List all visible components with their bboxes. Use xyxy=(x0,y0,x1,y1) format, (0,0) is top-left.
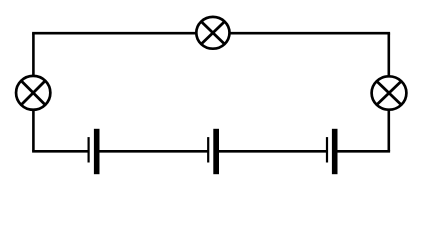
wire: bottom segment 1 xyxy=(32,150,89,153)
wire: bottom segment 2 xyxy=(97,150,209,153)
wire: bottom segment 4 xyxy=(335,150,391,153)
lamp X3 (right) xyxy=(372,76,407,109)
battery cell B1 xyxy=(88,129,100,174)
wire: bottom segment 3 xyxy=(216,150,327,153)
wire: right vertical xyxy=(387,33,390,151)
lamp X2 (top) xyxy=(196,17,229,49)
lamp X1 (left) xyxy=(16,76,50,110)
battery cell B3 xyxy=(326,129,338,174)
wire: left vertical xyxy=(32,33,35,151)
battery cell B2 xyxy=(207,129,219,174)
wire: top horizontal xyxy=(32,32,390,35)
